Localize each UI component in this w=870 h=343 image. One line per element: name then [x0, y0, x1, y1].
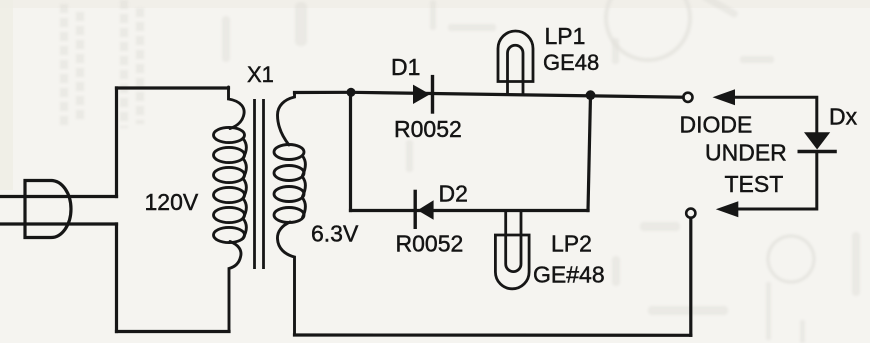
svg-text:LP2: LP2 [551, 231, 592, 257]
diode Dx [798, 132, 837, 151]
wire secondary bottom rail [295, 333, 691, 336]
svg-text:LP1: LP1 [545, 23, 586, 49]
diode D2 [415, 190, 433, 229]
svg-text:120V: 120V [145, 189, 199, 215]
plug P1 body [25, 181, 71, 238]
svg-text:GE48: GE48 [543, 50, 599, 75]
terminal upper (open circle) [683, 93, 692, 102]
wire plug bottom prong to box [0, 222, 117, 225]
svg-text:X1: X1 [247, 62, 274, 87]
wire branch right vertical [588, 95, 591, 210]
arrow upper test lead [713, 89, 736, 105]
lamp LP2 [495, 210, 529, 289]
wire branch bottom horizontal [351, 209, 589, 212]
transformer X1 secondary winding [274, 93, 306, 336]
wire primary left upper vertical [115, 88, 118, 197]
terminal lower (open circle) [686, 209, 695, 218]
diode D1 [413, 75, 433, 114]
svg-text:6.3V: 6.3V [311, 221, 359, 247]
arrow lower test lead [716, 201, 739, 217]
wire lower test lead [737, 152, 817, 210]
svg-text:R0052: R0052 [396, 230, 464, 256]
node B junction dot [586, 90, 596, 100]
wire primary left lower vertical [115, 224, 118, 332]
node A junction dot [347, 88, 356, 97]
svg-text:DIODE: DIODE [680, 111, 753, 137]
svg-text:Dx: Dx [829, 104, 858, 130]
wire secondary top rail [295, 92, 684, 97]
lamp LP1 [498, 31, 533, 96]
svg-text:D1: D1 [391, 54, 420, 80]
wire plug top prong to box [0, 195, 117, 198]
transformer X1 core [255, 99, 264, 269]
transformer X1 primary winding [214, 87, 247, 332]
wire primary bottom [117, 330, 230, 333]
svg-text:UNDER: UNDER [705, 140, 787, 166]
svg-text:R0052: R0052 [394, 116, 462, 142]
wire branch left vertical [349, 92, 352, 210]
svg-text:D2: D2 [439, 181, 468, 207]
wire upper test lead [733, 97, 817, 132]
wire primary top [117, 86, 229, 89]
wire lower terminal drop [689, 218, 692, 335]
svg-text:GE#48: GE#48 [533, 262, 605, 288]
svg-text:TEST: TEST [725, 171, 784, 197]
